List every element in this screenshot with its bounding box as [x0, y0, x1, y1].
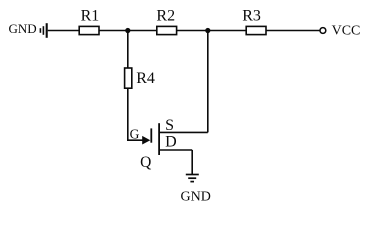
resistor R1 — [79, 7, 99, 34]
ground symbol (rotated, left terminal) — [40, 23, 46, 38]
wire: source up to node B — [207, 31, 209, 133]
svg-text:Q: Q — [140, 154, 151, 171]
resistor R4 — [125, 68, 155, 88]
svg-text:GND: GND — [9, 21, 37, 36]
svg-text:S: S — [165, 117, 174, 134]
node A: junction of R1/R2/R4 — [125, 28, 130, 33]
transistor Q: channel bar — [158, 123, 160, 155]
wire: left ground to R1 — [48, 30, 79, 32]
svg-text:VCC: VCC — [332, 23, 361, 38]
wire: drain pin horizontal — [160, 149, 192, 151]
wire: R1 to R2 — [99, 30, 157, 32]
wire: R3 to VCC terminal — [266, 30, 320, 32]
svg-text:GND: GND — [181, 189, 211, 204]
wire: R2 to R3 — [177, 30, 247, 32]
transistor Q: gate bar — [150, 128, 152, 142]
resistor R3 — [242, 7, 266, 34]
node B: junction of R2/R3/source — [205, 28, 210, 33]
svg-text:R2: R2 — [156, 7, 175, 24]
svg-text:R4: R4 — [136, 70, 155, 87]
terminal VCC (open circle) — [320, 28, 326, 34]
wire: gate horizontal — [127, 139, 144, 141]
transistor Q: gate arrowhead — [142, 136, 150, 145]
wire: drain down to ground — [191, 150, 193, 174]
svg-text:G: G — [130, 126, 140, 141]
svg-text:R1: R1 — [81, 7, 100, 24]
wire: R4 down to gate — [127, 88, 129, 140]
svg-text:D: D — [165, 134, 177, 151]
wire: source pin horizontal — [160, 131, 208, 133]
resistor R2 — [156, 7, 176, 34]
svg-text:R3: R3 — [242, 7, 261, 24]
wire: node A down to R4 — [127, 31, 129, 69]
ground symbol (bottom) — [186, 175, 199, 182]
